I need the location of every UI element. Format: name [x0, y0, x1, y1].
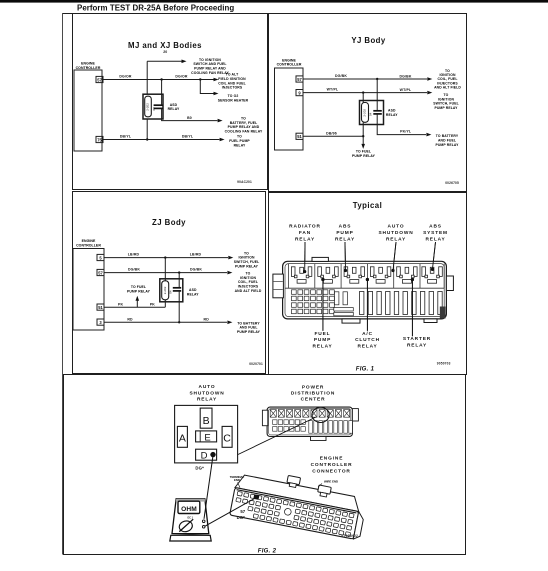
svg-text:PK: PK	[118, 302, 123, 306]
svg-text:57: 57	[240, 509, 245, 514]
ECM connector body	[230, 474, 368, 540]
relay coil P1	[145, 96, 152, 117]
test point dot on D	[210, 452, 215, 457]
node dot coil feed P3	[164, 256, 166, 258]
svg-text:LB/RD: LB/RD	[128, 253, 140, 257]
PDC small left tab	[262, 410, 267, 426]
node dot contact P2	[376, 78, 378, 80]
svg-text:Typical: Typical	[353, 201, 382, 210]
wire RD P3	[104, 321, 227, 323]
wire coil bottom drop P3	[164, 300, 166, 307]
relay coil P3	[162, 281, 169, 300]
panel border Typical	[269, 193, 467, 375]
leader line top label	[393, 242, 396, 271]
DVOM body	[172, 499, 209, 534]
wire coil bottom to fuel pump arrow P2	[362, 122, 364, 144]
relay box ASD P1	[143, 94, 163, 119]
leader end dots overlay	[303, 270, 306, 273]
leader relay to PDC	[238, 417, 316, 455]
svg-text:FIG. 1: FIG. 1	[356, 367, 375, 373]
spare socket slots	[318, 267, 338, 283]
svg-text:DB/YL: DB/YL	[120, 135, 132, 139]
DVOM probe jack 2	[202, 526, 205, 529]
svg-text:20: 20	[163, 50, 167, 54]
svg-text:ZJ Body: ZJ Body	[152, 218, 186, 227]
svg-text:MJ and XJ Bodies: MJ and XJ Bodies	[128, 41, 202, 50]
svg-text:RD: RD	[127, 318, 133, 322]
pin 5 P3	[97, 254, 104, 260]
PDC small bottom tab	[311, 437, 327, 441]
panel border YJ	[269, 14, 467, 192]
PDC fuse grid left	[292, 290, 335, 314]
radiator fan relay socket slots	[291, 267, 311, 283]
svg-text:DB/YL: DB/YL	[182, 135, 194, 139]
svg-text:E: E	[204, 432, 210, 443]
svg-text:FIG. 2: FIG. 2	[258, 549, 277, 555]
svg-text:51: 51	[297, 134, 302, 139]
ABS pump relay socket slots	[344, 267, 364, 283]
svg-text:A: A	[179, 433, 186, 445]
svg-text:FUELPUMPRELAY: FUELPUMPRELAY	[312, 331, 332, 350]
engine controller box P2	[275, 68, 304, 150]
wire DG/BK P3	[104, 272, 227, 274]
PDC small fuse slots left	[273, 420, 306, 431]
svg-text:57: 57	[97, 77, 102, 82]
svg-text:PK: PK	[150, 302, 155, 306]
svg-text:0020701: 0020701	[249, 362, 263, 366]
PDC small right tab	[352, 409, 358, 421]
wire coil bottom drop P1	[146, 119, 148, 140]
terminal E box	[196, 431, 217, 442]
wire B0 from contact P1	[162, 108, 218, 120]
svg-text:90AC201: 90AC201	[237, 180, 252, 184]
PDC top tab	[312, 257, 328, 261]
title underline / top border of panels	[62, 13, 467, 15]
PDC dark connector slot	[440, 307, 446, 319]
circle highlight ASD socket	[312, 407, 329, 422]
DVOM probe jack 1	[202, 520, 205, 523]
PDC outer body FIG1	[283, 261, 447, 319]
svg-text:04: 04	[369, 112, 373, 116]
pin 3 P3	[97, 319, 104, 325]
svg-text:Perform TEST DR-25A Before Pro: Perform TEST DR-25A Before Proceeding	[77, 4, 234, 13]
wire PK/YL from contact P2	[377, 114, 426, 135]
leader line FUEL RELAY	[322, 280, 324, 331]
svg-text:DG/BK: DG/BK	[128, 268, 140, 272]
svg-text:TO BATTERYAND FUELPUMP RELAY: TO BATTERYAND FUELPUMP RELAY	[237, 321, 261, 334]
PDC bottom tab 1	[342, 319, 360, 323]
ABS system relay socket slots	[422, 267, 442, 283]
wire LB/RD P3	[104, 257, 228, 259]
engine controller box P3	[73, 249, 104, 331]
PDC relay socket row	[285, 287, 444, 289]
wire 20 branch arrow P1	[147, 60, 182, 62]
svg-text:B: B	[203, 415, 210, 427]
pin 51 P3	[97, 304, 104, 310]
pin 75 P1	[96, 136, 103, 142]
svg-text:LB/RD: LB/RD	[190, 253, 202, 257]
relay box ASD P3	[160, 279, 183, 302]
terminal C box	[222, 426, 232, 447]
svg-text:57: 57	[98, 270, 103, 275]
PDC left tab	[273, 274, 284, 298]
node junction dot A P1	[160, 78, 162, 80]
wire riser 20 P1	[146, 61, 148, 94]
svg-text:PK/YL: PK/YL	[400, 130, 412, 134]
relay contact plates P2	[373, 110, 382, 112]
svg-text:WT/PL: WT/PL	[327, 88, 339, 92]
leader line top label	[304, 242, 306, 272]
PDC bottom tab 2	[424, 319, 437, 323]
wire contact top drop P3	[178, 273, 180, 288]
top black bar	[0, 0, 548, 3]
leader line top label	[432, 242, 435, 269]
svg-text:WT/PL: WT/PL	[400, 88, 412, 92]
svg-text:OHM: OHM	[181, 506, 197, 513]
svg-text:DG/OR: DG/OR	[119, 75, 132, 79]
wire DB/96 P2	[303, 135, 363, 137]
svg-text:CONTROLLER: CONTROLLER	[277, 63, 302, 67]
svg-text:WIRE END: WIRE END	[324, 480, 338, 484]
PDC small relay sockets row	[270, 410, 350, 418]
svg-text:9050703: 9050703	[437, 362, 451, 366]
node dot contact feed P3	[178, 271, 180, 273]
PDC inner outline	[285, 264, 444, 317]
wire branch to O2 heater P1	[200, 80, 214, 94]
DVOM dial	[178, 520, 193, 533]
relay box ASD P2	[360, 101, 384, 125]
node dot coil P2	[362, 91, 364, 93]
pin 57 P2	[296, 76, 303, 82]
wire DG/OR main P1	[103, 79, 200, 81]
svg-text:2-202: 2-202	[363, 109, 367, 117]
svg-text:RD: RD	[204, 318, 210, 322]
wire DB/YL bottom P1	[103, 139, 219, 141]
svg-text:YJ Body: YJ Body	[351, 36, 386, 45]
DVOM base	[170, 535, 211, 541]
PDC right tab	[446, 276, 453, 291]
svg-text:DG/BK: DG/BK	[190, 268, 202, 272]
ECM connector latch 2	[317, 485, 331, 498]
svg-text:57: 57	[297, 77, 302, 82]
svg-text:75: 75	[97, 137, 102, 142]
wire contact drop P1	[161, 80, 163, 106]
wire contact top drop P2	[376, 79, 378, 111]
svg-text:DG*: DG*	[195, 466, 204, 471]
pin 57 P1	[96, 76, 103, 82]
wire coil top drop P3	[164, 258, 166, 281]
ECM connector latch 1	[286, 475, 300, 488]
terminal D box	[196, 449, 217, 460]
ASD relay cavity box FIG2	[175, 405, 238, 463]
svg-text:C: C	[223, 433, 231, 445]
wire arrow to alt field P1	[200, 79, 214, 81]
wire DG/BK P2	[303, 78, 427, 80]
leader line A/C RELAY	[366, 280, 368, 331]
left page edge line	[62, 13, 64, 555]
engine controller box P1	[74, 70, 102, 151]
svg-text:DG/BK: DG/BK	[399, 74, 411, 78]
wire fuel pump up arrow P3	[136, 300, 138, 308]
PDC small body FIG2	[267, 407, 352, 436]
svg-text:2-202: 2-202	[146, 103, 150, 111]
wire WT/PL P2	[303, 92, 427, 94]
svg-text:DG*: DG*	[237, 515, 245, 520]
pin 51 P2	[296, 133, 303, 139]
leader line top label	[344, 242, 347, 271]
PDC vertical fuse slots	[360, 292, 443, 315]
relay coil P2	[362, 103, 369, 123]
node junction dot B P1	[199, 78, 201, 80]
wire coil top drop P2	[362, 93, 364, 103]
test lead DVOM to ECM pin 57	[205, 499, 255, 527]
DVOM display	[178, 501, 200, 513]
wire contact bottom drop P3	[178, 291, 180, 322]
svg-text:D: D	[201, 451, 208, 462]
panel border MJ/XJ	[73, 14, 268, 190]
PDC small vertical slots	[309, 421, 353, 434]
pin 9 P2	[296, 90, 303, 96]
wire PK P3	[104, 306, 165, 308]
svg-text:DB/96: DB/96	[326, 131, 337, 135]
auto shutdown relay socket slots	[370, 267, 390, 283]
svg-text:2-202: 2-202	[163, 286, 167, 294]
node dot wire3 P2	[362, 135, 364, 137]
svg-text:DG/BK: DG/BK	[335, 74, 347, 78]
svg-text:CONTROLLER: CONTROLLER	[76, 244, 101, 248]
panel border ZJ	[73, 192, 266, 374]
node dot wireD P3	[178, 321, 180, 323]
starter relay socket slots	[397, 267, 417, 283]
leader line STARTER RELAY	[411, 280, 413, 336]
PDC middle slots	[334, 292, 354, 316]
test lead relay to DVOM	[204, 457, 213, 519]
relay contact plates P3	[173, 287, 181, 289]
svg-text:CONTROLLER: CONTROLLER	[76, 66, 101, 70]
pin 57 P3	[97, 269, 104, 275]
svg-text:0026705: 0026705	[445, 181, 459, 185]
svg-text:B0: B0	[187, 116, 192, 120]
svg-text:04: 04	[169, 290, 173, 294]
DVOM top shade	[176, 499, 205, 502]
svg-text:DG/OR: DG/OR	[175, 75, 188, 79]
ECM connector pin rows	[233, 491, 354, 536]
terminal A box	[177, 426, 187, 447]
leader lines overlay	[304, 242, 306, 272]
panel border FIG2	[64, 375, 466, 555]
svg-text:51: 51	[98, 305, 103, 310]
terminal B box	[200, 408, 212, 428]
svg-text:TO BATTERYAND FUELPUMP RELAY: TO BATTERYAND FUELPUMP RELAY	[435, 134, 459, 147]
node junction dot C P1	[146, 138, 148, 140]
svg-text:0T023N02: 0T023N02	[342, 534, 359, 538]
svg-text:DC 1: DC 1	[188, 517, 194, 520]
relay contact plates P1	[154, 104, 163, 106]
